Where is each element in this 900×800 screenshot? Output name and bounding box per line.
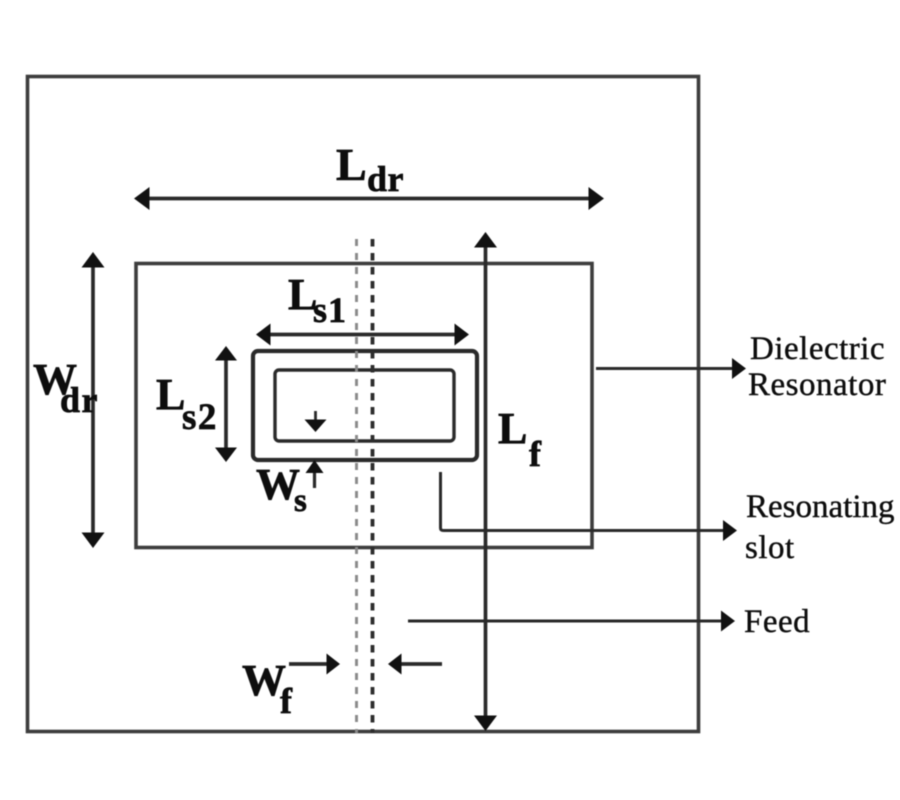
ground plane	[28, 77, 699, 732]
annotation Dielectric Resonator	[748, 331, 886, 403]
svg-text:s2: s2	[182, 397, 218, 438]
resonating slot outer	[253, 351, 477, 460]
label L_s2	[156, 370, 218, 438]
svg-text:L: L	[156, 370, 185, 419]
dimension arrow W_dr	[82, 252, 105, 548]
label L_dr	[336, 139, 404, 199]
dimension arrow L_dr	[134, 187, 604, 210]
svg-text:Dielectric: Dielectric	[750, 331, 885, 367]
dimension arrow L_f	[474, 232, 497, 731]
svg-text:f: f	[280, 681, 293, 721]
svg-text:L: L	[336, 139, 367, 190]
svg-text:Resonating: Resonating	[746, 489, 894, 525]
pointer arrow Dielectric Resonator	[596, 358, 746, 379]
annotation Resonating slot	[745, 489, 894, 566]
label L_f	[498, 404, 542, 474]
label L_s1	[288, 270, 347, 330]
svg-text:Resonator: Resonator	[748, 367, 886, 403]
pointer arrow Resonating slot	[441, 472, 738, 541]
svg-text:Feed: Feed	[744, 604, 810, 640]
dimension arrow L_s2	[215, 346, 237, 462]
svg-text:f: f	[529, 434, 542, 474]
svg-text:s: s	[294, 483, 307, 519]
annotation Feed	[744, 604, 810, 640]
feed line left dashed	[355, 239, 358, 733]
svg-text:s1: s1	[313, 290, 347, 330]
feed line right dashed	[371, 239, 375, 733]
W_s up arrow	[306, 460, 324, 488]
pointer arrow Feed	[408, 611, 735, 632]
svg-text:slot: slot	[745, 530, 795, 566]
svg-text:dr: dr	[60, 380, 99, 420]
svg-text:L: L	[498, 404, 527, 453]
resonating slot inner	[275, 370, 454, 441]
label W_dr	[33, 355, 99, 420]
dimension arrow W_f right-pointing	[289, 654, 340, 675]
small down arrow inside slot	[305, 411, 327, 432]
svg-text:dr: dr	[367, 159, 404, 199]
dimension arrow L_s1	[256, 324, 469, 346]
dielectric resonator	[136, 264, 592, 548]
label W_s	[256, 460, 307, 519]
label W_f	[242, 656, 293, 721]
dimension arrow W_f left-pointing	[388, 654, 442, 675]
